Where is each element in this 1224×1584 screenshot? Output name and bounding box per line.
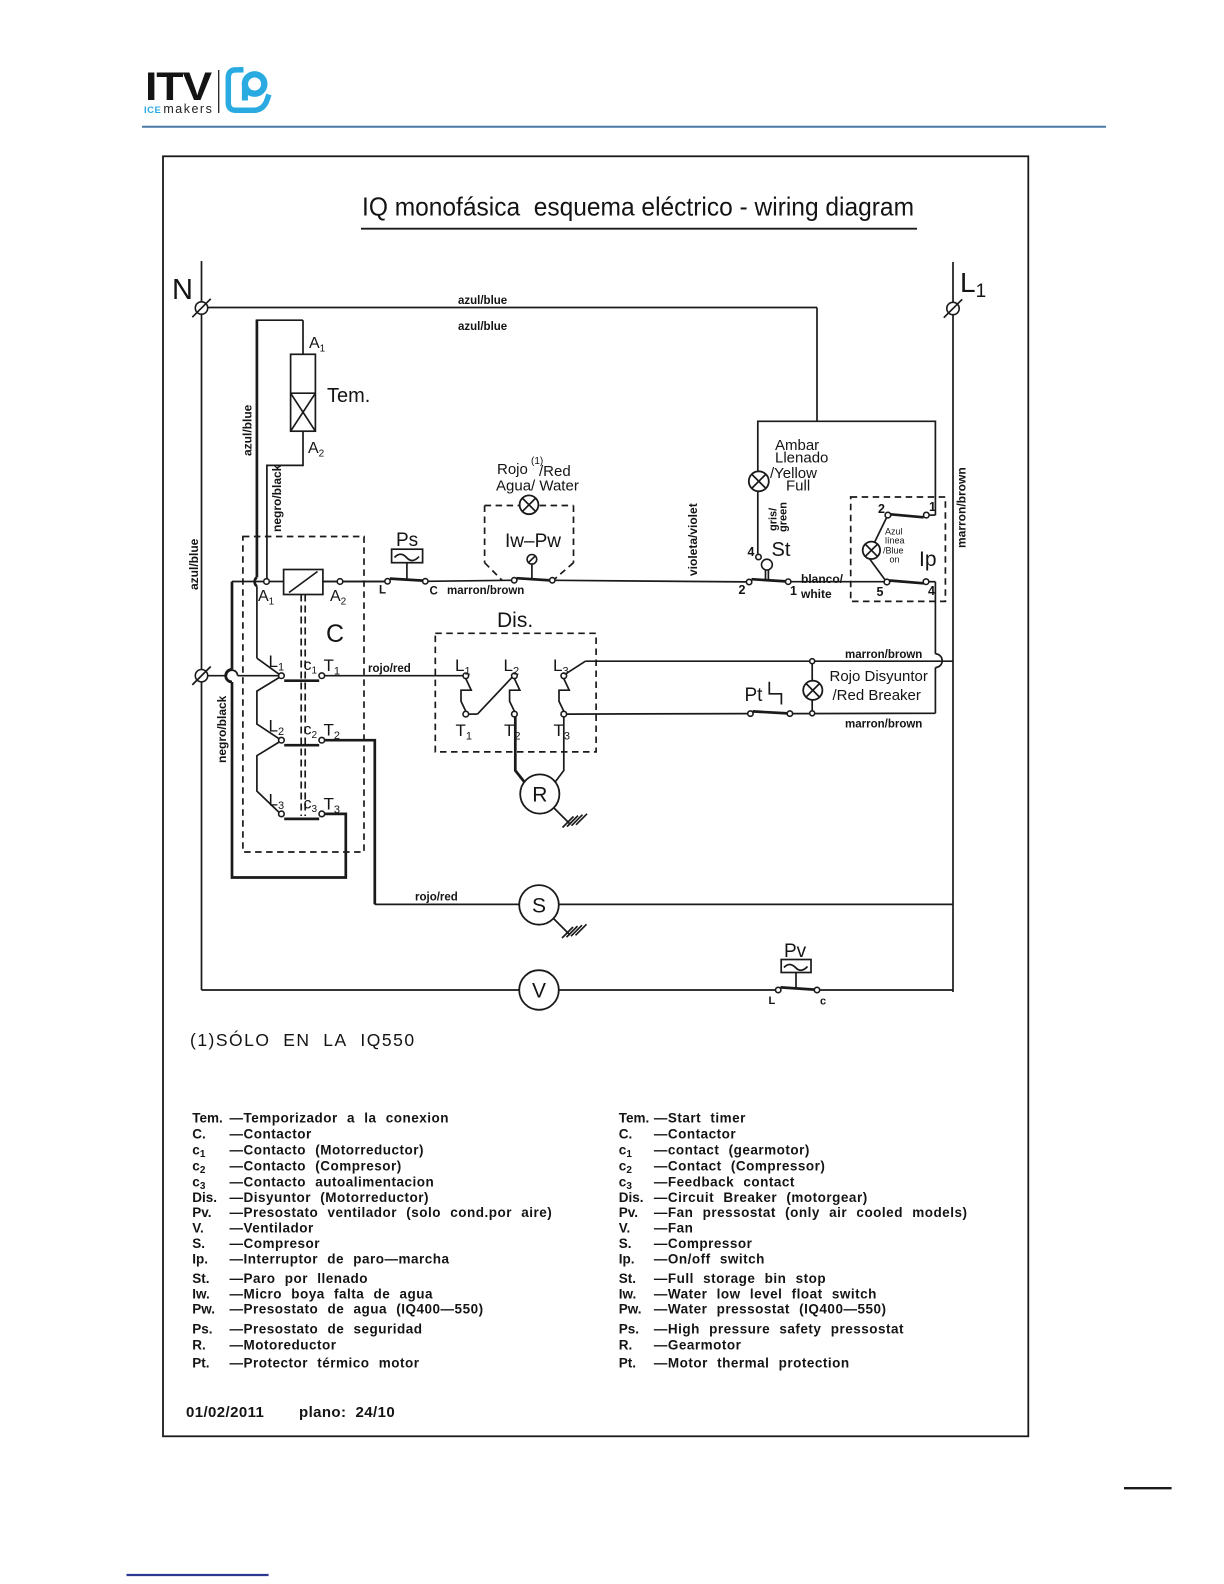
svg-text:Iw–Pw: Iw–Pw (505, 531, 561, 552)
svg-text:azul/blue: azul/blue (241, 404, 255, 456)
svg-text:St: St (772, 539, 791, 561)
svg-text:(1)SÓLO EN LA IQ550: (1)SÓLO EN LA IQ550 (190, 1029, 416, 1050)
node L1 (944, 267, 986, 318)
wire Ps C to Iw-Pw (428, 580, 512, 581)
svg-text:Ps.: Ps. (192, 1322, 212, 1337)
svg-text:V.: V. (619, 1221, 631, 1236)
svg-text:—Paro por llenado: —Paro por llenado (230, 1271, 369, 1286)
wire chain L1 to L2 (257, 678, 279, 739)
logo ITV wordmark (145, 65, 212, 109)
lamp Ambar Llenado (749, 471, 769, 491)
wire fan to Pv (559, 989, 776, 991)
svg-text:Tem.: Tem. (327, 385, 370, 407)
contactor C label (326, 620, 344, 648)
svg-text:Iw.: Iw. (619, 1286, 637, 1301)
contactor coil C (284, 570, 323, 595)
svg-text:negro/black: negro/black (270, 464, 284, 532)
push button St label (772, 539, 791, 561)
svg-text:azul/blue: azul/blue (458, 295, 507, 307)
lamp Rojo Disyuntor (803, 659, 822, 716)
pressostat Ps contact (379, 579, 438, 598)
svg-text:—Interruptor de paro—marcha: —Interruptor de paro—marcha (230, 1252, 450, 1267)
compressor S (519, 885, 559, 925)
wire gris/green (lamp to St pin 4) (757, 491, 759, 554)
title text (361, 192, 917, 229)
wire chain L2 to L3 (257, 742, 279, 813)
breaker pole 2 labels (504, 656, 521, 743)
timer coil Tem pin A1 (309, 335, 326, 355)
contactor coil pin A2 (323, 579, 385, 608)
svg-text:/Red Breaker: /Red Breaker (833, 687, 921, 704)
svg-text:—contact (gearmotor): —contact (gearmotor) (654, 1143, 810, 1158)
footer black line (1124, 1487, 1172, 1489)
label Rojo (1) /Red (497, 456, 571, 480)
wire N to fan (202, 989, 520, 991)
svg-text:L: L (769, 995, 776, 1007)
svg-text:—Compresor: —Compresor (230, 1236, 321, 1251)
on/off switch Ip dashed box (851, 497, 946, 601)
svg-text:—Contactor: —Contactor (230, 1127, 312, 1142)
wire control line A1..Ps (232, 581, 385, 583)
svg-text:—Presostato de seguridad: —Presostato de seguridad (230, 1322, 423, 1337)
wire T2 to compressor branch (325, 740, 375, 904)
breaker Dis label (497, 609, 533, 632)
wire Ambar box top (758, 421, 936, 515)
wire rojo/red (terminal to contact L1) with hop (208, 670, 279, 676)
logo icemakers text (144, 102, 213, 116)
label marron/brown (lower) (845, 719, 922, 731)
lamp Azul linea (863, 542, 880, 559)
logo divider bar (218, 70, 220, 113)
date and plan number (186, 1404, 395, 1421)
svg-text:—Contacto (Compresor): —Contacto (Compresor) (230, 1159, 402, 1174)
svg-text:—Circuit Breaker (motorgear): —Circuit Breaker (motorgear) (654, 1190, 868, 1205)
label azul/blue vertical (Tem branch) (241, 404, 255, 456)
wire Ip pin2 to lamp (875, 518, 887, 542)
svg-text:Pw.: Pw. (619, 1302, 642, 1317)
svg-text:Tem.: Tem. (192, 1111, 223, 1126)
svg-text:01/02/2011: 01/02/2011 (186, 1404, 264, 1421)
svg-text:1: 1 (929, 500, 936, 514)
svg-text:Iw.: Iw. (192, 1286, 210, 1301)
label gris/green (768, 502, 790, 532)
mechanical link (301, 595, 305, 817)
svg-text:N: N (172, 274, 193, 306)
svg-text:L: L (379, 585, 386, 597)
svg-text:línea: línea (885, 536, 905, 546)
Ip contact pins 2,1 (878, 500, 936, 518)
pressostat Ps (392, 530, 423, 580)
wire Pt to breaker lamp / Ip4 (793, 712, 936, 714)
svg-text:—Fan pressostat (only air cool: —Fan pressostat (only air cooled models) (654, 1205, 968, 1220)
wire lamp to Ip pin5 (870, 559, 885, 580)
label Azul linea /Blue on (883, 527, 905, 565)
svg-text:—Compressor: —Compressor (654, 1236, 753, 1251)
wire compressor to L1 line (559, 903, 953, 905)
timer coil Tem (291, 354, 371, 431)
svg-text:Rojo Disyuntor: Rojo Disyuntor (830, 668, 928, 685)
svg-text:2: 2 (878, 502, 885, 516)
svg-text:—Start timer: —Start timer (654, 1111, 746, 1126)
svg-text:Ip: Ip (919, 548, 937, 571)
node N (172, 274, 211, 317)
label marron/brown (Ps to Iw) (447, 585, 524, 597)
svg-text:C: C (326, 620, 344, 648)
thermal protector Pt symbol (769, 682, 781, 705)
label Agua/ Water (496, 478, 579, 495)
svg-text:on: on (890, 555, 900, 565)
pressostat Pv contact pins L,C (769, 987, 827, 1007)
contactor contact c3 (269, 791, 341, 819)
wire N vertical (201, 261, 203, 990)
svg-text:—On/off switch: —On/off switch (654, 1252, 765, 1267)
wire Tem bracket (azul/blue branch) (256, 320, 303, 577)
svg-text:green: green (778, 502, 790, 532)
svg-text:—Feedback contact: —Feedback contact (654, 1174, 795, 1189)
svg-text:C.: C. (192, 1127, 206, 1142)
label Rojo Disyuntor /Red Breaker (830, 668, 928, 704)
svg-text:—Temporizador a la conexion: —Temporizador a la conexion (230, 1111, 450, 1126)
svg-text:Agua/ Water: Agua/ Water (496, 478, 579, 495)
svg-text:—High pressure safety pressost: —High pressure safety pressostat (654, 1322, 904, 1337)
svg-text:marron/brown: marron/brown (845, 649, 922, 661)
svg-text:Dis.: Dis. (497, 609, 533, 632)
wire rojo/red (T1 to Dis L1) (325, 663, 463, 676)
svg-text:Dis.: Dis. (192, 1190, 217, 1205)
svg-text:C.: C. (619, 1127, 633, 1142)
ground at compressor (553, 918, 587, 938)
svg-text:ICEmakers: ICEmakers (144, 102, 213, 116)
svg-text:Ip.: Ip. (619, 1252, 635, 1267)
ground at gearmotor (554, 808, 588, 828)
svg-text:negro/black: negro/black (215, 695, 229, 763)
svg-text:IQ monofásica esquema eléctri: IQ monofásica esquema eléctrico - wiring… (362, 192, 914, 222)
pressostat Pv (781, 941, 811, 988)
svg-text:violeta/violet: violeta/violet (686, 503, 700, 576)
breaker pole 1 (L1/T1) (461, 673, 471, 717)
svg-text:1: 1 (790, 584, 797, 598)
wire T3 down to gearmotor (556, 717, 564, 782)
wire azul/blue top (N to Ambar box) (208, 295, 817, 421)
svg-text:4: 4 (748, 545, 755, 559)
svg-text:plano: 24/10: plano: 24/10 (299, 1404, 395, 1421)
svg-text:c: c (820, 996, 826, 1008)
label violeta/violet (686, 503, 700, 576)
wire autofeed loop T3 to A1 (negro/black) with hop (226, 582, 346, 878)
breaker pole 2 (L2/T2) (510, 673, 520, 717)
wire Ip pin1 to box corner (929, 514, 935, 516)
wire L3 blade to marron/brown out (566, 661, 586, 674)
svg-text:—Contactor: —Contactor (654, 1127, 736, 1142)
svg-text:—Contact (Compressor): —Contact (Compressor) (654, 1159, 826, 1174)
svg-text:Pt.: Pt. (619, 1355, 636, 1370)
label Ambar Llenado /Yellow Full (770, 437, 828, 495)
St pin 4 (748, 545, 762, 560)
svg-text:S: S (532, 895, 546, 918)
svg-text:Llenado: Llenado (775, 450, 828, 467)
breaker pole 3 (L3/T3) (559, 673, 569, 717)
svg-text:marron/brown: marron/brown (955, 467, 969, 548)
Ip contact pins 5,4 (877, 579, 936, 599)
svg-text:R.: R. (192, 1337, 206, 1352)
fan V (519, 970, 559, 1010)
contactor contact c1 (269, 652, 341, 681)
svg-text:white: white (800, 587, 832, 601)
svg-text:Full: Full (786, 478, 810, 495)
float switch Iw-Pw dashed enclosure (485, 506, 574, 581)
wire T3 to Pt (567, 713, 748, 716)
wire Ip pin4 down with hop (929, 582, 942, 714)
wire T2 down to gearmotor (515, 717, 524, 782)
svg-text:—Water pressostat (IQ400—550): —Water pressostat (IQ400—550) (654, 1302, 887, 1317)
svg-text:St.: St. (192, 1271, 209, 1286)
svg-text:R.: R. (619, 1337, 633, 1352)
label negro/black (upper) (270, 464, 284, 532)
wire T1 to L2 series link (469, 677, 513, 714)
svg-text:Pv.: Pv. (619, 1205, 638, 1220)
svg-text:—Protector térmico motor: —Protector térmico motor (230, 1355, 420, 1370)
wire rojo/red to compressor (375, 892, 520, 905)
svg-text:—Contacto autoalimentacion: —Contacto autoalimentacion (230, 1174, 435, 1189)
svg-text:—Disyuntor (Motorreductor): —Disyuntor (Motorreductor) (230, 1190, 430, 1205)
svg-text:Ps: Ps (396, 530, 418, 551)
push button St actuator (762, 559, 773, 579)
svg-text:V: V (532, 980, 546, 1003)
svg-text:—Gearmotor: —Gearmotor (654, 1337, 742, 1352)
legend english column (619, 1111, 968, 1371)
breaker pole 1 labels (455, 656, 472, 743)
svg-text:V.: V. (192, 1221, 204, 1236)
svg-text:—Ventilador: —Ventilador (230, 1221, 315, 1236)
svg-text:C: C (430, 586, 438, 598)
contactor coil pin A1 (258, 579, 275, 608)
legend spanish column (192, 1111, 552, 1371)
svg-text:marron/brown: marron/brown (447, 585, 524, 597)
svg-text:Pw.: Pw. (192, 1302, 215, 1317)
svg-text:Pv.: Pv. (192, 1205, 211, 1220)
wire blanco/white (St to Ip) (791, 572, 884, 601)
svg-text:azul/blue: azul/blue (187, 538, 201, 590)
svg-text:marron/brown: marron/brown (845, 719, 922, 731)
svg-text:azul/blue: azul/blue (458, 321, 507, 333)
Ip label (919, 548, 937, 571)
svg-text:5: 5 (877, 585, 884, 599)
header rule (142, 126, 1106, 128)
timer coil Tem pin A2 (308, 440, 325, 460)
svg-text:Ip.: Ip. (192, 1252, 208, 1267)
svg-text:—Fan: —Fan (654, 1221, 694, 1236)
svg-text:S.: S. (192, 1236, 205, 1251)
svg-text:—Contacto (Motorreductor): —Contacto (Motorreductor) (230, 1143, 424, 1158)
svg-text:—Micro boya falta de agua: —Micro boya falta de agua (230, 1286, 434, 1301)
gearmotor R (520, 774, 559, 813)
contactor contact c2 (269, 717, 341, 746)
wire marron/brown (Dis to L1 line) (585, 649, 953, 661)
breaker Dis dashed box (435, 633, 596, 752)
wire Pv to L1 line (820, 989, 953, 991)
svg-text:Dis.: Dis. (619, 1190, 644, 1205)
svg-text:—Motoreductor: —Motoreductor (230, 1337, 337, 1352)
svg-text:Tem.: Tem. (619, 1111, 650, 1126)
svg-text:Ps.: Ps. (619, 1322, 639, 1337)
label negro/black (loop) (215, 695, 229, 763)
svg-text:S.: S. (619, 1236, 632, 1251)
svg-text:Pt: Pt (745, 685, 764, 706)
lamp Rojo Agua (1) (520, 495, 539, 514)
svg-text:—Motor thermal protection: —Motor thermal protection (654, 1355, 850, 1370)
thermal protector Pt contact (748, 711, 793, 716)
contactor C dashed box (243, 537, 364, 853)
svg-text:2: 2 (739, 583, 746, 597)
wire L1 vertical (952, 262, 954, 992)
label azul/blue (N line) (187, 538, 201, 590)
wire negro/black (Tem A2 to contactor A1) (267, 431, 303, 578)
svg-text:R: R (532, 784, 547, 807)
push button St contact pins 2,1 (739, 579, 798, 598)
svg-text:rojo/red: rojo/red (368, 663, 411, 675)
node middle terminal on N line (192, 667, 210, 685)
svg-text:—Full storage bin stop: —Full storage bin stop (654, 1271, 826, 1286)
float switch contact (512, 578, 556, 583)
svg-text:—Presostato ventilador (solo c: —Presostato ventilador (solo cond.por ai… (230, 1205, 553, 1220)
svg-text:blanco/: blanco/ (801, 572, 844, 586)
label marron/brown (vertical at L1) (955, 467, 969, 548)
float sensor symbol (527, 555, 537, 579)
note (1) SOLO EN LA IQ550 (190, 1029, 416, 1050)
thermal protector Pt label (745, 685, 764, 706)
wire Iw-Pw to St (violeta) (555, 580, 747, 582)
svg-text:—Water low level float switch: —Water low level float switch (654, 1286, 877, 1301)
svg-text:Rojo: Rojo (497, 461, 528, 478)
label azul/blue second (458, 321, 507, 333)
svg-text:rojo/red: rojo/red (415, 892, 458, 904)
svg-text:4: 4 (928, 584, 935, 598)
wire A1 feed chain with hop (255, 577, 280, 674)
label Iw-Pw (505, 531, 561, 552)
svg-text:Pt.: Pt. (192, 1355, 209, 1370)
logo icemakers icon (228, 70, 269, 111)
svg-text:—Presostato de agua (IQ400—550: —Presostato de agua (IQ400—550) (230, 1302, 484, 1317)
footer blue line (127, 1574, 269, 1576)
breaker pole 3 labels (553, 656, 570, 743)
svg-text:St.: St. (619, 1271, 636, 1286)
